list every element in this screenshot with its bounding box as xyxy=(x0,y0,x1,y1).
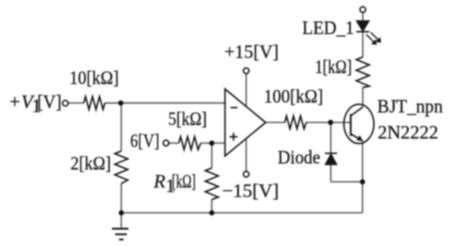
svg-text:LED_1: LED_1 xyxy=(302,18,354,39)
svg-text:+15[V]: +15[V] xyxy=(224,42,278,63)
svg-text:R: R xyxy=(153,171,166,192)
svg-text:[V]: [V] xyxy=(37,92,62,113)
svg-text:5[kΩ]: 5[kΩ] xyxy=(168,109,207,130)
svg-text:+: + xyxy=(10,92,21,113)
svg-text:2N2222: 2N2222 xyxy=(378,123,439,144)
svg-text:BJT_npn: BJT_npn xyxy=(377,97,443,118)
svg-text:[kΩ]: [kΩ] xyxy=(172,171,196,192)
svg-text:2[kΩ]: 2[kΩ] xyxy=(71,154,112,175)
svg-text:10[kΩ]: 10[kΩ] xyxy=(69,68,118,89)
svg-text:1[kΩ]: 1[kΩ] xyxy=(315,57,352,78)
svg-text:6[V]: 6[V] xyxy=(130,131,159,152)
svg-text:−15[V]: −15[V] xyxy=(222,181,279,202)
svg-text:100[kΩ]: 100[kΩ] xyxy=(264,87,323,108)
svg-text:Diode: Diode xyxy=(278,147,321,168)
